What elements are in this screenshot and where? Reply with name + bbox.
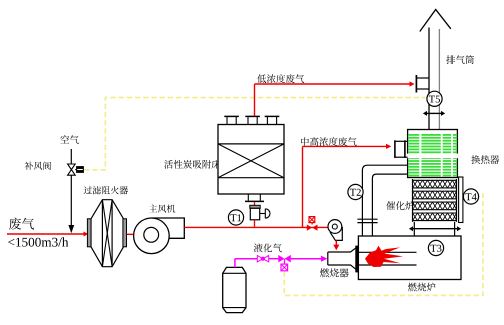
flow rate label <1500m3/h (8, 237, 68, 246)
makeup air valve 补风阀 (68, 164, 84, 175)
main fan label 主风机 (149, 205, 175, 213)
duct flange ticks (357, 219, 377, 222)
exhaust stack label 排气筒 (446, 55, 474, 64)
stack inlet nozzle (416, 75, 428, 93)
temperature sensor T4 (463, 189, 478, 204)
exhaust stack 排气筒 (420, 10, 451, 130)
air label 空气 (60, 135, 78, 144)
burner label 燃烧器 (320, 268, 349, 277)
furnace-to-exchanger duct (362, 165, 407, 236)
control line T4 to LPG valve (yellow dashed) (284, 193, 483, 295)
temperature sensor T1 (228, 210, 243, 225)
medium-high concentration gas line (red) (303, 144, 392, 228)
medium-high concentration gas label 中高浓度废气 (301, 137, 357, 146)
heat exchanger vessel 换热器 (407, 130, 459, 178)
catalytic bed 催化炉 (413, 179, 457, 222)
temperature sensor T2 (348, 184, 363, 199)
heat exchanger label 换热器 (471, 155, 499, 164)
burner fan (328, 220, 342, 241)
adsorption bed label 活性炭吸附床 (164, 160, 220, 169)
bed riser line (red) (254, 84, 256, 116)
low concentration gas label 低浓度废气 (257, 74, 304, 83)
temperature sensor T5 (427, 91, 442, 106)
makeup air valve label (25, 162, 51, 170)
LPG tank (223, 267, 246, 312)
combustion furnace label 燃烧炉 (408, 283, 436, 292)
combustion furnace 燃烧炉 (358, 236, 461, 280)
vessel-furnace connectors (414, 222, 454, 236)
stack flange double arrow (423, 111, 445, 116)
temperature sensor T3 (428, 240, 443, 255)
catalyst bottom double arrow (409, 226, 461, 231)
fan inlet line (red) (127, 233, 146, 235)
LPG label 液化气 (254, 244, 282, 253)
filter flame arrestor label (84, 186, 129, 194)
filter flame arrestor 过滤阻火器 (87, 200, 126, 267)
low concentration gas line (red) (255, 81, 415, 86)
waste gas inlet line (red) (7, 232, 88, 237)
bed outlet valve (250, 202, 270, 227)
main line fan outlet (red) (184, 226, 328, 228)
heat exchanger inlet nozzle (395, 140, 408, 158)
control line T5 to makeup air valve (yellow dashed) (84, 98, 425, 170)
LPG control valve (278, 255, 291, 271)
LPG hand valve (257, 256, 268, 262)
activated carbon adsorption bed 活性炭吸附床 (218, 116, 284, 201)
catalytic bed label 催化炉 (386, 201, 414, 210)
flame (365, 246, 403, 267)
main fan 主风机 (134, 218, 185, 254)
burner fan outlet arrow (red) (333, 240, 339, 250)
waste gas label 废气 (9, 218, 34, 230)
control valve on main line (red) (307, 217, 318, 231)
burner 燃烧器 (328, 246, 359, 272)
makeup air line with down arrow (68, 149, 74, 233)
catalyst side panel (459, 177, 463, 223)
LPG line (magenta) (235, 256, 328, 268)
